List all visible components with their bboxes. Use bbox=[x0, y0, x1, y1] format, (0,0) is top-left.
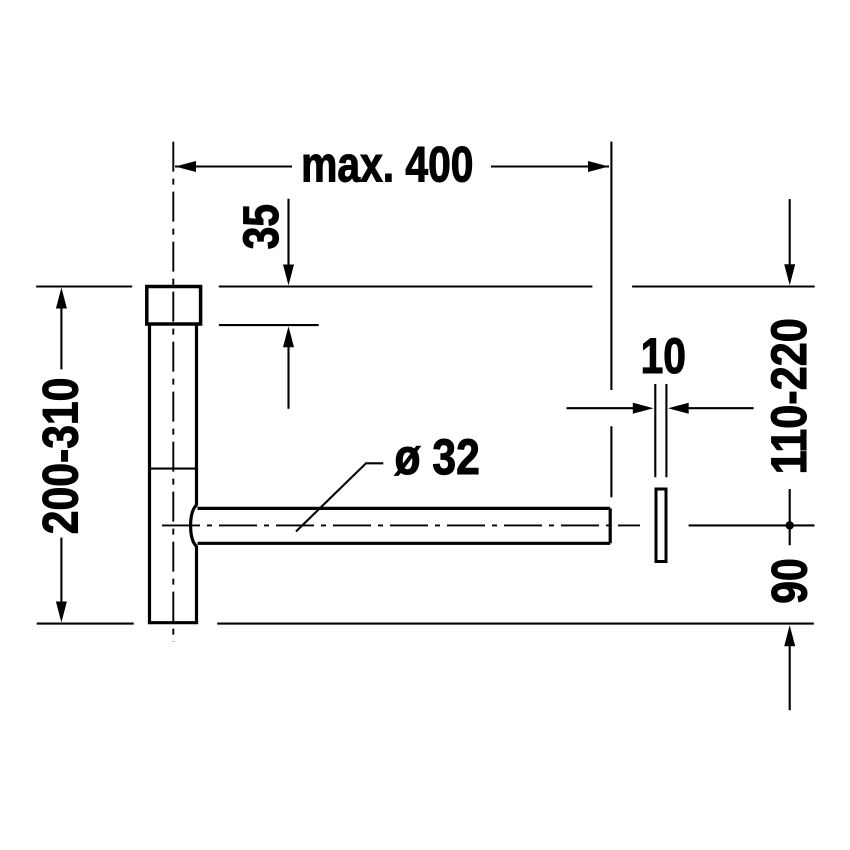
dim 10 right arrow line bbox=[688, 407, 754, 409]
dim 10 left arrow line bbox=[567, 407, 634, 409]
centerline horizontal (pipe axis) bbox=[162, 524, 640, 526]
extension line left (x 611) upper segment bbox=[610, 142, 612, 390]
vertical pipe left edge bbox=[148, 324, 151, 623]
centerline vertical (pipe axis) bbox=[172, 142, 174, 642]
vertical pipe bottom edge bbox=[148, 621, 198, 624]
dim 35 lower arrowhead (up) bbox=[283, 326, 294, 347]
dim 110-220 middle segment bbox=[789, 489, 791, 545]
svg-text:ø 32: ø 32 bbox=[395, 429, 480, 485]
vertical pipe seam bbox=[150, 468, 197, 470]
dim 35 upper tail bbox=[287, 199, 289, 266]
dim 200-310 upper tail bbox=[60, 308, 62, 370]
junction horizontal line bbox=[689, 524, 815, 526]
dim 200-310 upper arrowhead (up) bbox=[56, 288, 67, 309]
dimension max. 400 line right part bbox=[491, 165, 609, 167]
dim 35 lower tail bbox=[287, 347, 289, 409]
arrowhead max.400 right bbox=[588, 161, 609, 172]
extension line left (x 611) lower segment bbox=[610, 426, 612, 497]
dim 10 extension line right bbox=[665, 384, 667, 477]
reference line top y=286.5 right segment bbox=[632, 285, 815, 287]
dim 10 right arrowhead bbox=[668, 403, 689, 414]
reference line top y=286.5 middle segment bbox=[219, 285, 593, 287]
cap on vertical pipe bbox=[147, 287, 201, 325]
dim 200-310 lower arrowhead (down) bbox=[56, 602, 67, 623]
horizontal pipe bottom edge bbox=[198, 542, 611, 545]
leader line for diameter 32 bbox=[296, 463, 383, 531]
dim 90 bottom tail bbox=[789, 646, 791, 711]
svg-text:max. 400: max. 400 bbox=[301, 137, 473, 193]
svg-text:35: 35 bbox=[233, 204, 289, 249]
reference line cap bottom y=325 bbox=[219, 324, 319, 326]
svg-text:10: 10 bbox=[641, 328, 686, 384]
reference line bottom y=623.6 right segment bbox=[217, 623, 814, 625]
horizontal pipe left end bulge bbox=[191, 505, 197, 547]
wall plate bbox=[656, 489, 666, 562]
dim 110-220 upper arrowhead (down) bbox=[784, 264, 795, 285]
svg-text:90: 90 bbox=[761, 558, 817, 603]
horizontal pipe right end bbox=[609, 508, 612, 543]
vertical pipe right edge upper bbox=[195, 324, 198, 506]
dim 10 left arrowhead bbox=[633, 403, 654, 414]
dim 10 extension line left bbox=[654, 384, 656, 477]
arrowhead max.400 left bbox=[175, 161, 196, 172]
dimension max. 400 line left part bbox=[175, 165, 292, 167]
junction dot bbox=[786, 521, 794, 529]
horizontal pipe top edge bbox=[198, 507, 611, 510]
dim 110-220 upper tail bbox=[789, 199, 791, 266]
dim 35 upper arrowhead (down) bbox=[283, 265, 294, 286]
reference line bottom y=623.6 left segment bbox=[37, 623, 134, 625]
svg-text:200-310: 200-310 bbox=[33, 378, 89, 535]
vertical pipe right edge lower bbox=[195, 546, 198, 623]
reference line top y=286.5 left segment bbox=[36, 285, 132, 287]
svg-text:110-220: 110-220 bbox=[761, 318, 817, 474]
dim 90 bottom arrowhead (up) bbox=[784, 625, 795, 646]
dim 200-310 lower tail bbox=[60, 538, 62, 604]
